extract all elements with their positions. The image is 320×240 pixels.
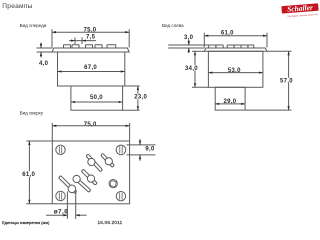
left plate (cover) [204, 48, 267, 51]
svg-text:Вид спереди: Вид спереди [20, 23, 47, 28]
left dim 34,0 top extension [192, 50, 204, 52]
front dim 4,0 bottom extension [37, 51, 53, 53]
pole screw D [73, 175, 91, 192]
front dim 75,0 left extension [51, 29, 53, 47]
front pole bump [95, 45, 102, 48]
front dim 23,0 text [133, 94, 149, 100]
left dim 57,0 text [279, 78, 295, 84]
svg-text:4,0: 4,0 [39, 61, 49, 67]
pole screw E [58, 176, 76, 194]
svg-text:ø7,6: ø7,6 [54, 209, 69, 216]
svg-text:75,0: 75,0 [84, 122, 97, 128]
left dim 3,0 bottom extension [168, 47, 204, 49]
svg-text:Единицы измерения (мм): Единицы измерения (мм) [2, 220, 50, 225]
mount screw bottom-right [116, 192, 125, 201]
left pole bump [248, 45, 254, 48]
left dim 34,0 text [184, 65, 199, 71]
front dim 75,0 line [52, 31, 129, 33]
top dim 61,0 bottom extension [26, 203, 52, 205]
top dim 9,0 bottom extension [127, 154, 156, 156]
dim 7,6 line right part [76, 214, 87, 216]
mount screw top-right [116, 145, 126, 155]
top dim 61,0 line [28, 141, 30, 204]
svg-text:7,5: 7,5 [86, 35, 96, 41]
svg-text:53,0: 53,0 [228, 68, 241, 74]
hex adjuster socket [109, 180, 117, 188]
front dim 23,0 top extension [125, 85, 140, 87]
front dim 23,0 bottom extension [123, 109, 140, 111]
svg-text:34,0: 34,0 [185, 66, 198, 72]
svg-text:Вид сверху: Вид сверху [20, 110, 44, 115]
front dim 4,0 lower arrow line [40, 52, 42, 57]
svg-text:67,0: 67,0 [84, 65, 97, 71]
svg-text:57,0: 57,0 [280, 79, 293, 85]
front plate (cover) [52, 48, 129, 52]
left dim 61,0 left extension [203, 33, 205, 48]
top dim 75,0 left extension [51, 123, 53, 141]
left dim 57,0 top extension [267, 50, 292, 52]
left dim 3,0 upper arrow line [188, 40, 190, 45]
front dim 50,0 line [71, 101, 123, 103]
logo tagline [287, 14, 318, 18]
dim 7,6 right extension [75, 192, 77, 219]
left dim 61,0 line [204, 35, 267, 37]
left pole bump [234, 45, 241, 48]
svg-text:50,0: 50,0 [90, 95, 103, 101]
pole screw A [86, 154, 103, 172]
front dim 4,0 top extension [37, 47, 53, 49]
top dim 61,0 text [21, 171, 36, 177]
front dim 67,0 line [58, 71, 125, 73]
top view plate outline [52, 141, 129, 204]
pole screw B [101, 153, 115, 167]
left pole bump [227, 45, 234, 48]
front dim 23,0 line [137, 86, 139, 110]
front pole bump [86, 45, 93, 48]
front dim 75,0 right extension [128, 29, 130, 47]
front dim 7,5 tick A [74, 37, 76, 44]
pole screw C [81, 169, 97, 185]
left pole bump [216, 45, 223, 48]
Schaller logo [281, 2, 318, 14]
front lower block [71, 86, 123, 110]
front pole bump [72, 45, 79, 48]
svg-text:15.06.2011: 15.06.2011 [98, 220, 123, 225]
left dim 57,0 bottom extension [245, 109, 291, 111]
front body [58, 52, 125, 86]
left dim 53,0 line [208, 72, 263, 74]
front pole bump [64, 45, 71, 48]
left dim 3,0 top extension [168, 44, 209, 46]
svg-text:9,0: 9,0 [145, 147, 155, 153]
top dim 75,0 right extension [129, 123, 131, 141]
top dim 9,0 upper arrow line [139, 139, 141, 144]
front pole bump [107, 45, 116, 48]
mount screw top-left [56, 145, 65, 154]
left dim 29,0 line [215, 103, 245, 105]
left pole bump [241, 45, 248, 48]
top dim 9,0 lower arrow line [139, 155, 141, 160]
left lower block [215, 87, 245, 110]
front dim 4,0 upper arrow line [40, 43, 42, 48]
svg-text:Вид слева: Вид слева [162, 23, 184, 28]
front dim 7,5 line [69, 40, 96, 42]
front dim 7,5 tick B [81, 37, 83, 44]
left dim 57,0 line [288, 51, 290, 110]
top dim 9,0 top extension [127, 144, 156, 146]
mount screw bottom-left [56, 191, 65, 200]
top dim 75,0 line [52, 125, 129, 127]
svg-text:Преампы: Преампы [2, 3, 32, 10]
left dim 61,0 right extension [266, 33, 268, 48]
left body [208, 51, 263, 87]
svg-text:61,0: 61,0 [22, 172, 35, 178]
dim 7,6 line left part [46, 214, 67, 216]
dim 7,6 left extension [66, 192, 68, 219]
left pole bump [209, 45, 216, 48]
left dim 34,0 bottom extension [192, 86, 208, 88]
left dim 34,0 line [194, 51, 196, 87]
top dim 61,0 top extension [26, 140, 52, 142]
svg-text:23,0: 23,0 [134, 95, 147, 101]
left dim 3,0 lower arrow line [188, 48, 190, 53]
svg-text:75,0: 75,0 [84, 28, 97, 34]
